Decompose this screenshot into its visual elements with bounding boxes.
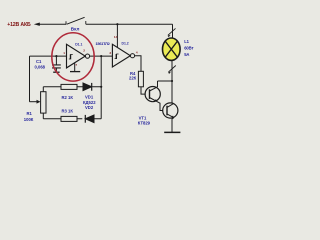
transistor VT1b <box>163 103 178 118</box>
wire input node <box>30 55 67 57</box>
wire top rail <box>86 23 173 25</box>
svg-text:КД522: КД522 <box>83 100 96 105</box>
svg-text:R3 1К: R3 1К <box>62 109 74 114</box>
switch SA1 <box>66 21 86 25</box>
svg-text:D1.2: D1.2 <box>122 42 129 46</box>
svg-text:D1.1: D1.1 <box>75 42 82 46</box>
potentiometer R1 body <box>41 92 46 113</box>
junction collectors node <box>171 80 173 82</box>
wire D1.2 output to R4 <box>135 56 141 72</box>
transistor VT1a <box>145 87 160 102</box>
wire lamp bottom + connector slash <box>171 60 173 81</box>
svg-text:Вкл: Вкл <box>71 27 80 32</box>
wire collector riser T1 <box>157 81 159 87</box>
supply arrow <box>40 23 67 25</box>
wire branch2 <box>43 118 101 120</box>
wire T2 collector riser <box>172 81 174 104</box>
resistor R4 <box>138 71 143 87</box>
svg-text:R2 1К: R2 1К <box>62 95 74 100</box>
R1 wiper arrow <box>30 101 38 103</box>
lamp L1 <box>163 38 181 60</box>
ground emitter <box>164 131 180 133</box>
junction branch1 <box>100 86 102 88</box>
wire branch1 <box>43 86 101 88</box>
svg-text:5А: 5А <box>184 52 189 57</box>
svg-text:1561ТЛ2: 1561ТЛ2 <box>96 41 111 46</box>
wire D1.1 out to D1.2 in <box>90 55 113 57</box>
svg-text:R1: R1 <box>27 111 33 116</box>
svg-text:3: 3 <box>109 51 111 55</box>
diode VD1 <box>83 83 92 91</box>
wire T2 emitter down <box>172 118 174 133</box>
ground C1 <box>53 71 59 73</box>
node C1 junction <box>55 55 57 57</box>
junction feedback node <box>100 55 102 57</box>
wire lamp top + connector slash <box>172 24 174 38</box>
svg-text:КТ829: КТ829 <box>138 121 151 126</box>
diode VD2 <box>85 115 94 123</box>
svg-text:1: 1 <box>63 51 65 55</box>
svg-text:4: 4 <box>136 51 138 55</box>
junction pin14 rail <box>116 23 118 25</box>
svg-text:+12В АКБ: +12В АКБ <box>7 22 31 28</box>
svg-text:22К: 22К <box>129 76 137 81</box>
wire T1 emitter to T2 base <box>157 101 164 110</box>
svg-text:VD1: VD1 <box>85 94 94 99</box>
resistor R2 <box>61 84 77 89</box>
svg-text:L1: L1 <box>184 39 189 44</box>
ground D1.1 pin7 <box>74 63 76 71</box>
resistor R3 <box>61 116 77 121</box>
wire wiper riser <box>29 56 31 102</box>
capacitor C1 <box>55 56 57 65</box>
wire pin14 riser <box>116 24 118 47</box>
svg-text:7: 7 <box>75 63 77 67</box>
potentiometer R1 rails <box>42 87 44 119</box>
svg-text:60Вт: 60Вт <box>184 46 193 51</box>
svg-text:VD2: VD2 <box>85 105 94 110</box>
svg-text:0,068: 0,068 <box>35 64 46 69</box>
inverter D1.1 <box>67 44 86 68</box>
svg-text:2: 2 <box>83 49 85 53</box>
inverter D1.2 <box>112 44 130 67</box>
svg-text:14: 14 <box>114 35 118 39</box>
svg-text:100К: 100К <box>24 117 34 122</box>
red highlight circle <box>52 33 94 81</box>
wire collector join <box>158 80 173 82</box>
feedback vertical wire <box>100 56 102 119</box>
wire R4 to VT1 base <box>141 87 145 94</box>
